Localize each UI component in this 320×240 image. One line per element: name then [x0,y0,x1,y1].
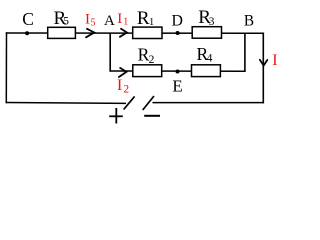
node D junction dot [176,31,180,35]
arrow for current I2 [119,68,127,77]
resistor R2 box [133,65,162,77]
wire: node B vertical branch [244,33,246,72]
battery plus sign [109,115,123,117]
svg-text:I: I [272,52,277,69]
battery minus sign [144,115,160,117]
resistor R1 box [133,27,162,38]
arrow for current I1 [120,29,127,37]
arrow for current I5 [86,29,94,38]
battery positive plate (slanted) [124,96,135,109]
node C junction dot [25,31,29,35]
svg-text:B: B [244,13,254,30]
svg-text:E: E [172,77,182,96]
resistor R3 box [192,27,221,39]
svg-text:I: I [117,75,122,94]
svg-text:3: 3 [209,16,215,28]
wire: left vertical [5,32,7,103]
resistor R5 box [48,27,76,38]
svg-text:A: A [104,13,115,29]
wire: middle horizontal A-R2-E-R4 branch [110,70,246,72]
node E junction dot [176,70,180,74]
svg-text:I: I [85,11,90,27]
resistor R4 box [192,65,221,77]
svg-text:1: 1 [123,16,128,27]
wire: right vertical with current I [262,33,264,104]
arrow for current I (down) [260,60,267,66]
svg-text:1: 1 [149,17,154,28]
wire: bottom right from switch to right corner [153,102,265,104]
wire: node A vertical branch [109,33,111,72]
svg-text:5: 5 [63,16,69,28]
svg-text:4: 4 [207,53,213,65]
wire: top horizontal C-A-D-B [6,32,264,34]
svg-text:2: 2 [149,54,155,66]
battery negative plate (slanted switch blade) [143,96,154,110]
wire: bottom left to battery [6,102,126,105]
svg-text:2: 2 [123,84,129,96]
svg-text:C: C [22,9,34,29]
svg-text:R: R [137,8,150,29]
svg-text:5: 5 [91,17,96,28]
svg-text:D: D [172,13,183,30]
svg-text:I: I [117,11,122,27]
